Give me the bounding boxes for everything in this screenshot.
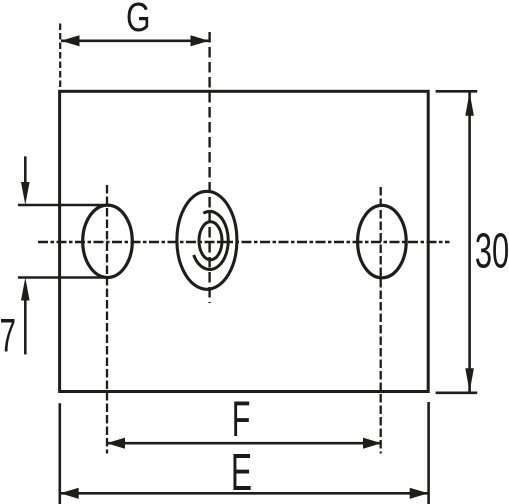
right hole — [358, 205, 407, 277]
dimension 7 down arrowhead — [21, 182, 30, 205]
dimension 30 top arrowhead — [465, 92, 474, 116]
dimension F left arrowhead — [107, 438, 126, 449]
dimension 7 up arrow tail — [24, 300, 27, 354]
vertical centerline right hole — [380, 187, 382, 454]
dimension 7 bottom line — [18, 276, 104, 279]
dimension G right arrowhead — [191, 35, 210, 46]
dimension 7 up arrowhead — [21, 278, 30, 301]
dimension F line — [107, 442, 381, 445]
plate outline — [60, 91, 429, 391]
vertical centerline center hole — [208, 32, 210, 303]
center hole outer ellipse — [177, 191, 237, 289]
center hole inner ellipse — [199, 222, 222, 260]
dimension F right arrowhead — [363, 438, 382, 449]
30 top extension line — [436, 90, 478, 93]
dimension G line — [61, 39, 209, 42]
vertical centerline left hole — [106, 185, 108, 454]
horizontal centerline — [38, 241, 450, 244]
30 bottom extension line — [436, 391, 478, 394]
left hole — [83, 205, 133, 277]
dimension 7 down arrow tail — [24, 156, 27, 183]
svg-text:F: F — [232, 391, 251, 447]
dimension G left arrowhead — [61, 35, 80, 46]
dimension E right arrowhead — [410, 488, 429, 499]
svg-text:30: 30 — [475, 223, 509, 278]
svg-text:G: G — [126, 0, 151, 40]
svg-text:E: E — [231, 444, 252, 502]
dimension E left arrowhead — [60, 488, 78, 499]
G extension line (dashed, plate left edge extended) — [59, 24, 61, 90]
dimension E line — [60, 492, 428, 495]
dimension 30 line — [468, 92, 471, 392]
svg-text:7: 7 — [0, 310, 16, 363]
E left extension line — [58, 403, 61, 504]
dimension 30 bottom arrowhead — [465, 368, 474, 392]
E right extension line — [427, 402, 430, 504]
center hole thread arc — [194, 212, 229, 270]
dimension 7 top line — [18, 204, 104, 207]
